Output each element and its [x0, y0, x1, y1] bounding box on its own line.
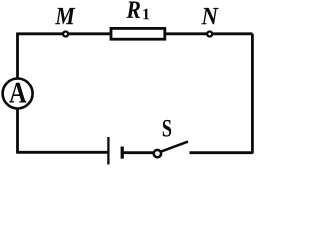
- wire battery to switch: [123, 151, 153, 154]
- label R1 part R: [126, 2, 140, 18]
- label N: [201, 8, 218, 24]
- battery short plate: [121, 147, 124, 159]
- wire top rail M-N: [16, 32, 252, 35]
- label S: [163, 120, 171, 137]
- battery long plate: [107, 137, 109, 165]
- wire right rail: [251, 34, 254, 154]
- label M: [55, 8, 75, 24]
- wire left rail upper: [16, 34, 19, 80]
- ammeter letter A: [9, 83, 26, 103]
- switch lever: [161, 142, 188, 152]
- wire left rail lower: [16, 108, 19, 153]
- wire bottom rail left to battery: [16, 151, 107, 154]
- ammeter U1 circle: [3, 79, 33, 109]
- switch S contact circle: [154, 150, 161, 157]
- node N: [207, 32, 212, 37]
- resistor R1 body: [111, 28, 165, 39]
- node M: [63, 32, 68, 37]
- wire switch to right corner: [190, 151, 253, 154]
- label R1 subscript 1: [143, 9, 149, 20]
